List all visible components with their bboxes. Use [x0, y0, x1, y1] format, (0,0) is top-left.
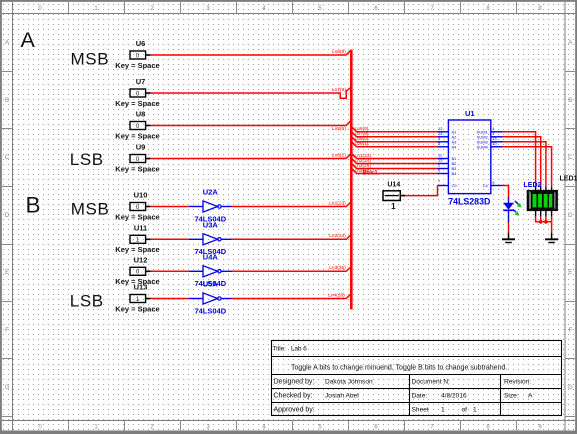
svg-text:Revision:: Revision:: [504, 379, 531, 386]
U1 pin B2 stub, pin number 2: [438, 163, 449, 169]
svg-text:U11: U11: [134, 223, 147, 232]
wire from inverter U5A output to bus: [232, 294, 352, 299]
wire from U1 SUM1 to LED2: [503, 132, 536, 187]
svg-text:E: E: [5, 270, 9, 276]
svg-text:LSB: LSB: [70, 150, 104, 169]
wire from inverter U4A output to bus: [232, 267, 352, 272]
svg-text:F: F: [568, 328, 572, 334]
wire from inverter U3A output to bus: [232, 235, 352, 240]
svg-text:Key = Space: Key = Space: [115, 99, 159, 108]
svg-text:A: A: [528, 393, 533, 400]
svg-text:C: C: [5, 155, 10, 161]
annotation letter A: [21, 28, 36, 52]
svg-text:Ln6(1): Ln6(1): [355, 141, 369, 147]
switch U13 (interactive digital constant, value 1): [115, 283, 159, 314]
wire net A3 from U7 to bus (with jog): [151, 87, 352, 98]
wire from U1 C4 to LED1: [503, 186, 509, 198]
net label Ln6(8) on U6 wire: [332, 49, 346, 55]
op IC U1 74LS283D body: [448, 120, 490, 194]
switch U11 (interactive digital constant, value 1): [115, 223, 159, 254]
LED1 emission arrow 1: [515, 201, 522, 208]
svg-text:D: D: [5, 213, 10, 219]
junction at LED2 pin 2: [538, 219, 543, 224]
junction at LED2 pin 3: [543, 219, 548, 224]
svg-text:U3A: U3A: [203, 220, 219, 229]
net label Ln3(25) on U4A output wire: [329, 265, 346, 271]
svg-text:U9: U9: [136, 143, 146, 152]
svg-text:MSB: MSB: [71, 199, 110, 218]
switch U12 (interactive digital constant, value 0): [115, 255, 159, 286]
svg-text:Key = Space: Key = Space: [115, 164, 159, 173]
wire from U1 SUM3 to LED2: [503, 142, 546, 187]
svg-text:of: of: [462, 407, 468, 414]
svg-text:Key = Space: Key = Space: [115, 61, 159, 70]
svg-text:A4: A4: [452, 144, 458, 149]
net label Ln7(9) on U7 wire: [332, 87, 346, 93]
svg-text:C: C: [568, 155, 573, 161]
U1 pin C4 stub, pin number 9: [491, 180, 503, 186]
net label Ln2(24) on U1 B3 wire: [355, 158, 372, 164]
wire net A4 from U6 to bus: [151, 50, 352, 55]
annotation LSB (B group): [70, 292, 104, 311]
svg-text:74LS283D: 74LS283D: [448, 196, 490, 206]
svg-text:F: F: [5, 328, 9, 334]
U1 pin SUM4 stub, pin number 10: [491, 141, 503, 147]
svg-text:Size:: Size:: [504, 393, 519, 400]
wire from U1 SUM2 to LED2: [503, 137, 541, 187]
wire from bus to U1 pin B1: [352, 169, 438, 174]
U1 value label 74LS283D: [448, 196, 490, 206]
LED1 (blue LED, pointing down): [503, 197, 514, 222]
wire from bus to U1 pin A2: [352, 137, 438, 142]
ruler letters left/right: [5, 40, 573, 391]
svg-text:U8: U8: [136, 110, 146, 119]
U1 pin A3 stub, pin number 14: [438, 131, 449, 137]
svg-text:Ln6(8): Ln6(8): [332, 49, 346, 55]
U1 pin B1 stub, pin number 6: [438, 168, 449, 174]
svg-text:U5A: U5A: [203, 280, 219, 289]
svg-text:G: G: [5, 385, 10, 391]
svg-text:Ln5(5): Ln5(5): [332, 126, 346, 132]
svg-text:U7: U7: [136, 77, 146, 86]
wires from LED2 cathodes to ground: [535, 217, 552, 233]
net label Ln6(1) on U1 A1 wire: [355, 141, 369, 147]
wire from U11 to inverter U3A input: [151, 238, 189, 240]
svg-text:U14: U14: [387, 181, 400, 188]
svg-text:D: D: [568, 213, 573, 219]
net label Ln2(24) on U3A output wire: [329, 233, 346, 239]
wire from U14 to U1 pin C0: [405, 186, 437, 196]
wire from bus to U1 pin B4: [352, 154, 438, 159]
svg-text:Josiah Abel: Josiah Abel: [325, 393, 359, 400]
wire from LED1 cathode to ground: [508, 222, 510, 233]
sheet border frame: [0, 431, 577, 434]
LED1 reference label (at right margin): [560, 176, 577, 183]
svg-text:4/8/2016: 4/8/2016: [441, 393, 467, 400]
net label Ln3(25) on U1 B2 wire: [355, 163, 372, 169]
net label Ln4(26) on U5A output wire: [328, 292, 345, 298]
svg-text:A: A: [568, 40, 572, 46]
annotation LSB (A group): [70, 150, 104, 169]
svg-text:Ln4(26): Ln4(26): [328, 292, 345, 298]
svg-text:U12: U12: [134, 255, 148, 264]
svg-text:G: G: [568, 385, 573, 391]
svg-text:Bus1: Bus1: [363, 169, 379, 176]
wire from bus to U1 pin A3: [352, 132, 438, 137]
svg-text:Ln1(23): Ln1(23): [329, 200, 346, 206]
U1 pin A1 stub, pin number 5: [438, 141, 449, 147]
U1 pin B3 stub, pin number 15: [438, 158, 449, 164]
svg-text:U4A: U4A: [203, 252, 219, 261]
wire from U1 SUM4 to LED2: [503, 147, 552, 187]
U1 pin C0 stub, pin number 7: [438, 179, 449, 186]
U1 reference label: [465, 109, 475, 118]
U1 pin B4 stub, pin number 11: [438, 153, 449, 159]
svg-text:74LS04D: 74LS04D: [194, 306, 226, 315]
svg-text:Key = Space: Key = Space: [115, 304, 159, 313]
svg-text:B: B: [5, 98, 9, 104]
wire net A2 from U8 to bus: [151, 120, 352, 125]
ground symbol under LED1: [502, 233, 515, 243]
switch U9 (interactive digital constant, value 0): [115, 143, 159, 174]
U1 pin SUM1 stub, pin number 4: [491, 126, 503, 132]
annotation MSB (A group): [71, 50, 110, 69]
switch U8 (interactive digital constant, value 0): [115, 110, 159, 141]
svg-text:Key = Space: Key = Space: [115, 131, 159, 140]
svg-text:E: E: [568, 270, 572, 276]
LED2 reference label: [524, 182, 542, 189]
svg-text:1: 1: [441, 407, 445, 414]
svg-text:A: A: [5, 40, 9, 46]
title block text: [273, 345, 534, 413]
svg-text:Title:: Title:: [273, 345, 287, 352]
svg-text:1: 1: [473, 407, 477, 414]
inverter U3A 74LS04D: [189, 220, 232, 256]
title block: [272, 341, 562, 416]
svg-text:Key = Space: Key = Space: [115, 245, 159, 254]
net label Ln6(1) on U9 wire: [332, 153, 346, 159]
net label Ln1(23) on U1 B4 wire: [355, 153, 372, 159]
U1 pin A4 stub, pin number 12: [438, 126, 449, 132]
svg-text:B4: B4: [452, 171, 458, 176]
annotation letter B: [26, 193, 41, 218]
digital constant U14, value 1: [383, 181, 405, 211]
net label Ln7(9) on U1 A3 wire: [355, 131, 369, 137]
svg-text:C4: C4: [483, 183, 489, 188]
annotation MSB (B group): [71, 199, 110, 218]
svg-text:Lab 6: Lab 6: [291, 345, 307, 352]
bus name label Bus1: [363, 169, 379, 176]
svg-text:Ln3(25): Ln3(25): [329, 265, 346, 271]
svg-text:SUM4: SUM4: [477, 144, 489, 149]
svg-text:U1: U1: [465, 109, 475, 118]
svg-text:LED2: LED2: [524, 182, 542, 189]
svg-text:Date:: Date:: [412, 393, 428, 400]
svg-text:Ln6(1): Ln6(1): [332, 153, 346, 159]
LED1 emission arrow 2: [513, 210, 519, 216]
U1 pin SUM3 stub, pin number 13: [491, 136, 503, 142]
wire from U10 to inverter U2A input: [151, 206, 189, 208]
switch U6 (interactive digital constant, value 0): [115, 39, 159, 70]
wire from bus to U1 pin A4: [352, 127, 438, 132]
bus Bus1 (vertical): [350, 50, 353, 310]
svg-text:10: 10: [492, 141, 497, 146]
wire from bus to U1 pin B2: [352, 164, 438, 169]
svg-text:1: 1: [391, 202, 396, 211]
svg-text:B: B: [568, 98, 572, 104]
svg-text:C0: C0: [452, 183, 458, 188]
wire from bus to U1 pin B3: [352, 159, 438, 164]
net label Ln4(26) on U1 B1 wire: [355, 168, 372, 174]
wire from U13 to inverter U5A input: [151, 298, 189, 300]
net label Ln6(8) on U1 A4 wire: [355, 126, 369, 132]
net label Ln5(5) on U8 wire: [332, 126, 346, 132]
svg-text:MSB: MSB: [71, 50, 110, 69]
svg-text:B: B: [26, 193, 41, 218]
svg-text:Document N:: Document N:: [412, 379, 451, 386]
wire from bus to U1 pin A1: [352, 142, 438, 147]
svg-text:LSB: LSB: [70, 292, 104, 311]
svg-text:Ln7(9): Ln7(9): [332, 87, 346, 93]
inverter U2A 74LS04D: [189, 188, 232, 224]
switch U7 (interactive digital constant, value 0): [115, 77, 159, 108]
svg-text:U6: U6: [136, 39, 146, 48]
U1 pin A2 stub, pin number 3: [438, 136, 449, 142]
svg-text:Toggle A bits to change minuen: Toggle A bits to change minuend. Toggle …: [291, 365, 507, 372]
inverter U5A 74LS04D: [189, 280, 232, 316]
switch U10 (interactive digital constant, value 0): [115, 191, 159, 222]
wire from inverter U2A output to bus: [232, 202, 352, 207]
net label Ln1(23) on U2A output wire: [329, 200, 346, 206]
svg-text:U2A: U2A: [203, 188, 219, 197]
svg-text:Checked by:: Checked by:: [274, 393, 313, 400]
svg-text:Approved by:: Approved by:: [274, 407, 315, 414]
svg-text:Dakota Johnson: Dakota Johnson: [325, 379, 373, 386]
svg-text:A: A: [21, 28, 36, 52]
svg-text:U13: U13: [134, 283, 148, 292]
svg-text:Key = Space: Key = Space: [115, 212, 159, 221]
wire net A1 from U9 to bus: [151, 153, 352, 158]
svg-text:Sheet: Sheet: [412, 407, 429, 414]
wire from U12 to inverter U4A input: [151, 270, 189, 272]
inverter U4A 74LS04D: [189, 252, 232, 288]
svg-text:Ln2(24): Ln2(24): [329, 233, 346, 239]
svg-text:LED1: LED1: [560, 176, 577, 183]
U1 pin SUM2 stub, pin number 1: [491, 131, 503, 137]
net label Ln5(5) on U1 A2 wire: [355, 136, 369, 142]
ground symbol under LED2: [545, 233, 558, 243]
svg-text:U10: U10: [134, 191, 148, 200]
LED2 bargraph display: [528, 186, 557, 216]
svg-text:Designed by:: Designed by:: [274, 379, 315, 386]
